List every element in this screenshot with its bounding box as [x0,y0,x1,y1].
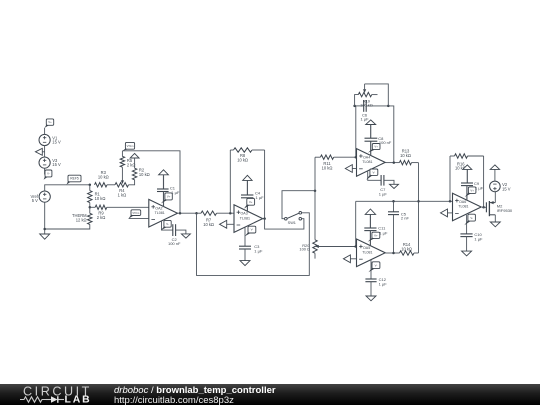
wire [44,146,46,157]
svg-text:V-: V- [470,216,473,220]
CircuitLab logo [0,384,110,405]
svg-text:1 µF: 1 µF [379,231,388,236]
svg-text:IRF9530: IRF9530 [497,208,513,213]
resistor R1 [88,185,106,208]
wire (OA5 output) [385,252,399,254]
svg-text:5 V: 5 V [32,198,38,203]
node (rail / C5) [392,200,395,203]
node (OA5 + input) [354,245,357,248]
wire (R13/R14 right leg) [418,163,420,253]
svg-text:15 V: 15 V [52,162,61,167]
wire (R9 to OA2 +) [107,206,149,208]
node (OA6 + / R16 feedback) [449,200,452,203]
svg-text:1 µF: 1 µF [474,237,483,242]
voltage source V1 [39,134,61,145]
wire [466,169,468,183]
wire [45,185,90,191]
wire (OA4 top rail right) [366,106,394,163]
flag VTrim (net VTrim, OA2 - input) [129,210,141,219]
voltage source V3 [39,157,61,168]
capacitor C1 [157,186,180,196]
node (REF5 / R1 junction) [89,184,92,187]
capacitor C5 [388,201,409,253]
svg-text:10 kΩ: 10 kΩ [98,175,109,180]
flag V- (OA6 supply) [464,214,475,225]
wire [44,168,46,174]
resistor R9 [90,205,107,220]
node (OA3 output) [263,217,266,220]
op-amp OA2 [149,199,178,227]
ground (OA3 - input) [220,220,235,228]
svg-text:100 nF: 100 nF [168,241,181,246]
svg-text:TL081: TL081 [155,211,165,215]
wire [163,175,165,189]
voltage source V2 [490,181,511,192]
wire [176,230,186,234]
wire (OA5 V+ pin) [369,231,371,246]
R19 wiper arm [363,84,388,106]
svg-text:TL081: TL081 [458,205,468,209]
wire (OA3 output to SW1 throw) [265,219,304,230]
svg-text:2 kΩ: 2 kΩ [97,215,106,220]
supply arrow V+ (R2 top) [130,153,139,158]
wire (to OA6 +) [419,200,453,202]
resistor R13 [399,149,418,165]
switch SW1 upper throw contact [299,212,302,215]
wire (OA2 - input) [129,218,149,220]
resistor R5 [120,151,135,168]
svg-text:SW1: SW1 [288,221,296,225]
node (OA4 + input) [355,156,358,159]
svg-text:OA5: OA5 [363,246,370,250]
switch SW1 lever [287,213,299,218]
svg-text:OA2: OA2 [155,206,162,210]
resistor R7 [197,211,235,227]
capacitor C10 [460,232,483,242]
svg-text:V-: V- [166,222,169,226]
switch SW1 label [288,221,296,225]
svg-text:V+: V+ [374,233,378,237]
wire (OA5 V- pin) [370,260,372,279]
svg-text:TL081: TL081 [362,160,372,164]
potentiometer R20 [299,240,317,259]
wire (OA4 V+ pin) [370,141,372,156]
ground (M2 drain) [490,222,500,227]
resistor R11 [315,155,357,171]
ground (OA4 bypass) [390,184,399,188]
svg-text:100 kΩ: 100 kΩ [360,102,373,107]
flag V+ (OA6 supply) [465,187,476,197]
capacitor C9 [461,181,484,191]
switch SW1 common contact [285,217,288,220]
wire (center bus) [314,157,316,240]
svg-text:2 nF: 2 nF [401,216,410,221]
svg-text:VTrim: VTrim [127,144,134,148]
wire (OA4 top rail left) [355,105,364,107]
wire (OA4 + riser) [355,106,357,157]
svg-text:V+: V+ [249,200,253,204]
capacitor C7 [379,175,388,196]
flag V+ (OA3 supply) [244,198,255,208]
wire (OA2 V- pin) [162,221,173,231]
ground (OA5 - input) [343,255,356,263]
node (rail / pot wiper) [387,105,390,108]
wire (OA3 V+ pin) [246,198,248,211]
svg-text:V+: V+ [48,120,52,124]
capacitor C11 [364,226,388,236]
svg-text:TL081: TL081 [240,216,250,220]
svg-text:V-: V- [373,170,376,174]
wire (OA6 V- pin) [466,215,468,234]
svg-text:REF5: REF5 [70,177,79,181]
wire [369,214,371,228]
wire (R16 feedback left leg) [449,156,451,201]
wire (M2 drain) [494,215,496,222]
flag V+ (OA2 supply) [161,193,172,204]
ground (OA2 bypass) [181,234,190,238]
wire [384,180,394,184]
capacitor C4 [241,190,264,200]
wire (VTrim node to OA2 output) [122,151,180,213]
node (OA4 output / loop) [393,161,396,164]
wire (OA3 V- pin) [244,227,246,246]
wire (V2 top) [494,169,496,181]
wire (M2 source to V2) [494,192,496,203]
wire (R8 feedback left leg) [229,150,231,213]
credit text [114,385,276,396]
flag V- (OA4 supply) [366,169,378,180]
supply arrow V+ (OA5) [365,209,375,214]
ground (OA4 - input) [345,165,356,173]
svg-text:10 kΩ: 10 kΩ [237,158,248,163]
potentiometer R19 [355,92,378,107]
node (Vref ground junction) [43,228,46,231]
supply arrow V+ (OA2) [159,170,169,175]
voltage flag V+ (net V+) [45,119,54,128]
wire [246,180,248,195]
ground (OA6 bypass) [462,237,472,256]
svg-text:LAB: LAB [65,395,92,405]
ground (OA3 bypass) [240,249,250,266]
wire [370,125,372,139]
svg-text:10 kΩ: 10 kΩ [203,222,214,227]
node (OA6 + node) [417,200,420,203]
svg-text:15 V: 15 V [52,140,61,145]
wire (OA5 top rail) [356,200,419,202]
resistor R8 [230,148,264,163]
svg-text:TL081: TL081 [362,251,372,255]
wire (OA6 output to gate) [482,206,486,208]
resistor R14 [400,242,419,255]
supply arrow V+ (OA4) [366,120,376,125]
ground (between V1 and V3) [35,148,44,155]
svg-text:V+: V+ [470,188,474,192]
wire (SW1 common up to bus) [282,191,315,219]
node (R1 / R9 / THERM junction) [89,206,92,209]
footer bar [0,384,540,405]
flag V- (OA2 supply) [161,220,171,230]
wire (OA2 V+ pin) [163,192,165,208]
svg-text:1 µF: 1 µF [379,191,388,196]
node (bus / SW1 common) [314,189,317,192]
svg-text:V+: V+ [374,145,378,149]
R20 wiper (to OA5 +) [315,245,356,248]
wire [107,184,115,186]
node (OA5 output / C5) [392,252,395,255]
wire (SW1 upper throw) [197,213,310,276]
svg-text:OA3: OA3 [241,212,248,216]
wire (OA3 output) [262,218,265,220]
flag V- (OA3 supply) [245,226,256,236]
R4 wiper arm (from R5) [121,167,124,184]
capacitor C12 [365,277,387,287]
thermistor THERM [72,207,92,224]
svg-text:10 kΩ: 10 kΩ [400,153,411,158]
svg-text:OA4: OA4 [363,156,370,160]
op-amp OA3 [234,205,263,233]
voltage flag V- (net V-) [44,170,52,180]
capacitor C3 [239,244,263,254]
switch SW1 lower throw contact [299,217,302,220]
potentiometer R4 [115,183,129,198]
svg-text:10 kΩ: 10 kΩ [95,196,106,201]
wire (R4 to R2 bottom) [129,180,135,185]
resistor R3 [95,170,109,187]
capacitor C2 [168,224,181,246]
flag VTrim (net VTrim, top) [123,142,135,151]
supply arrow V+ (OA6) [463,165,472,170]
wire [45,202,90,229]
op-amp OA4 [357,149,386,177]
wire (R16 feedback right leg) [483,156,485,207]
svg-text:100 nF: 100 nF [379,140,392,145]
svg-text:10 kΩ: 10 kΩ [401,246,412,251]
svg-text:V+: V+ [167,195,171,199]
wire (OA2 output) [178,212,197,214]
flag V+ (OA4 supply) [368,144,380,153]
svg-text:V-: V- [47,172,50,176]
svg-text:12 kΩ: 12 kΩ [76,218,87,223]
supply arrow V+ (OA3) [243,175,252,180]
capacitor C6 [360,100,369,122]
svg-text:15 V: 15 V [502,186,511,191]
op-amp OA5 [357,239,386,267]
wire (R8 feedback right leg) [264,150,266,219]
svg-text:1 µF: 1 µF [379,282,388,287]
svg-text:10 kΩ: 10 kΩ [322,166,333,171]
resistor R16 [450,154,484,171]
svg-text:100 Ω: 100 Ω [299,247,310,252]
svg-text:1 µF: 1 µF [360,117,369,122]
ground (OA6 - input) [441,209,453,217]
svg-text:V-: V- [375,263,378,267]
transistor M2 (IRF9530) [486,201,513,216]
capacitor C8 [365,136,392,145]
flag REF5 (net REF5) [67,175,82,184]
svg-text:VTrim: VTrim [132,211,139,215]
resistor R2 [132,158,149,180]
svg-text:V-: V- [251,228,254,232]
flag V+ (OA5 supply) [368,232,380,242]
wire [44,128,46,135]
wire (OA5 + riser) [355,201,357,246]
node (rail left / pot) [353,105,356,108]
wire (OA4 V- pin) [368,171,381,180]
svg-text:1 µF: 1 µF [256,195,265,200]
svg-text:1 µF: 1 µF [254,249,263,254]
flag V- (OA5 supply) [368,262,380,272]
svg-text:1 kΩ: 1 kΩ [118,193,127,198]
svg-text:10 kΩ: 10 kΩ [139,172,150,177]
node (OA6 output) [482,206,485,209]
voltage source Vref [31,191,51,203]
svg-text:OA6: OA6 [459,200,466,204]
ground (OA5 bypass) [366,282,376,301]
wire (OA6 V+ pin) [466,186,468,201]
supply arrow V+ (V2) [490,165,499,170]
node (OA2 output / feedback riser) [179,212,182,215]
op-amp OA6 [453,193,482,221]
ground (below Vref) [40,229,50,239]
wire (OA4 output) [385,162,399,164]
node (OA3 + / R8 feedback) [229,212,232,215]
node (OA2 output / R7) [195,212,198,215]
